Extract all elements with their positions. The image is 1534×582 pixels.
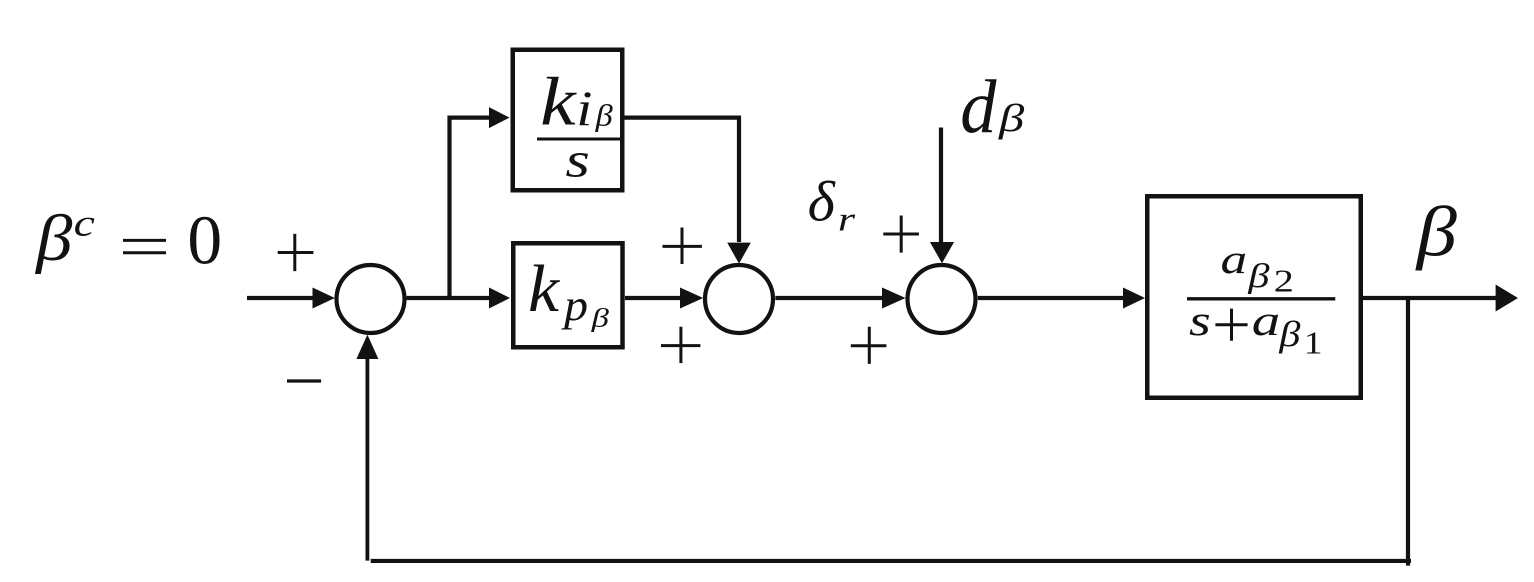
fraction bar of plant transfer function xyxy=(1187,297,1335,300)
label: k_i_beta numerator of integrator xyxy=(540,64,613,140)
summing junction S3 xyxy=(908,265,976,333)
svg-text:β: β xyxy=(1247,257,1270,295)
svg-text:r: r xyxy=(838,202,856,239)
svg-text:β: β xyxy=(1414,193,1457,271)
label: s+a_beta_1 denominator of plant xyxy=(1189,297,1323,361)
wire: Kp output to summing junction S2 xyxy=(625,296,681,300)
label: output beta xyxy=(1414,193,1457,271)
svg-text:β: β xyxy=(998,96,1025,140)
plus sign at summing junction S1 input xyxy=(278,234,314,271)
wire: input into summing junction S1 xyxy=(247,296,314,300)
wire: feedback rise back into S1 xyxy=(365,357,369,561)
fraction bar of Ki/s xyxy=(537,138,620,141)
block: proportional gain Kp xyxy=(513,243,622,347)
wire: integrator output to summing junction S2 xyxy=(622,118,739,242)
svg-text:s: s xyxy=(565,133,590,188)
svg-text:i: i xyxy=(576,81,592,136)
wire: S1 output to proportional block Kp xyxy=(407,296,490,300)
wire: S2 output to summing junction S3 xyxy=(775,296,883,300)
svg-text:β: β xyxy=(590,302,610,332)
svg-text:a: a xyxy=(1252,297,1281,345)
wire: branch from S1 output up into integrator block xyxy=(450,118,491,298)
summing junction S2 xyxy=(705,265,773,333)
svg-text:1: 1 xyxy=(1304,325,1323,360)
label: delta_r on S2-S3 wire xyxy=(808,170,857,238)
svg-text:2: 2 xyxy=(1274,263,1294,299)
label: a_beta_2 numerator of plant xyxy=(1221,236,1294,299)
plus sign at S3 delta_r input xyxy=(883,216,919,253)
svg-text:a: a xyxy=(1221,236,1248,282)
block: plant a_beta2/(s+a_beta1) xyxy=(1147,196,1361,398)
svg-text:s: s xyxy=(1189,297,1211,345)
node: reference input label beta^c = 0 xyxy=(34,202,222,280)
wire: disturbance d_beta down into S3 xyxy=(939,128,943,243)
block: integrator Ki/s xyxy=(513,50,623,191)
svg-text:c: c xyxy=(74,203,95,245)
equals sign of beta^c = 0 xyxy=(123,240,166,252)
wire: plant output to beta xyxy=(1363,296,1497,300)
svg-text:δ: δ xyxy=(808,170,837,233)
svg-text:β: β xyxy=(594,98,613,132)
label: disturbance d_beta xyxy=(960,65,1024,149)
wire: feedback bottom run xyxy=(371,559,1411,563)
plus sign at S2 proportional input xyxy=(661,327,700,363)
minus sign at S1 feedback input xyxy=(287,379,321,382)
svg-text:k: k xyxy=(528,251,560,326)
svg-text:k: k xyxy=(540,64,577,140)
svg-text:β: β xyxy=(1278,314,1300,354)
wire: feedback tap down from output xyxy=(1406,298,1410,566)
label: s denominator of integrator xyxy=(565,133,590,188)
svg-text:d: d xyxy=(960,65,997,149)
wire: S3 output to plant block xyxy=(978,296,1124,300)
svg-text:p: p xyxy=(561,280,588,330)
plus sign at S3 main input xyxy=(851,327,887,364)
plus sign inside plant denominator xyxy=(1215,309,1247,341)
label: k_p_beta xyxy=(528,251,610,332)
summing junction S1 xyxy=(337,265,405,333)
svg-text:0: 0 xyxy=(187,202,222,280)
plus sign at S2 integrator input xyxy=(663,228,702,265)
svg-text:β: β xyxy=(34,202,73,275)
